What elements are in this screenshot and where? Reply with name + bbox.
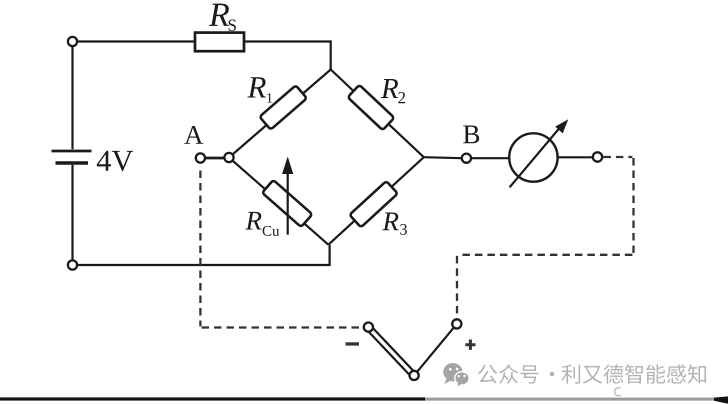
label RS bbox=[209, 4, 229, 26]
battery - terminal circle bbox=[68, 260, 77, 269]
resistor R3 bbox=[349, 181, 397, 227]
arrow wiper of RCu bbox=[287, 171, 289, 235]
label R1 bbox=[247, 77, 266, 97]
wire from Rs to top corner and down to bridge top vertex bbox=[244, 42, 331, 71]
battery 4V plates bbox=[52, 150, 92, 153]
bridge left vertex circle bbox=[224, 153, 233, 162]
wire bridge arm bottom-left bbox=[229, 158, 328, 245]
node B terminal circle bbox=[462, 154, 471, 163]
label R3 bbox=[382, 213, 398, 231]
wire top from battery + terminal to Rs bbox=[77, 40, 195, 42]
label minus polarity bbox=[346, 342, 360, 345]
label R2 bbox=[381, 79, 398, 98]
resistor RCu bbox=[262, 180, 312, 227]
right terminal circle bbox=[593, 152, 602, 161]
switch left contact circle bbox=[364, 323, 373, 332]
resistor RS bbox=[195, 33, 244, 52]
resistor R1 bbox=[259, 85, 306, 129]
battery + terminal circle bbox=[68, 37, 77, 46]
dashed wire from right terminal to switch right contact bbox=[457, 157, 634, 319]
meter M1 (galvanometer) bbox=[509, 133, 557, 181]
switch pivot contact circle bbox=[410, 371, 419, 380]
label B bbox=[463, 126, 479, 144]
wire bottom from battery - terminal to bridge bottom vertex bbox=[77, 245, 329, 265]
switch right contact circle bbox=[452, 319, 461, 328]
wire bridge right vertex to node B bbox=[424, 157, 462, 158]
wire meter to right terminal bbox=[558, 156, 593, 158]
wire node A to bridge left vertex bbox=[204, 157, 225, 160]
wire bridge arm top-left bbox=[229, 70, 331, 158]
label plus polarity bbox=[465, 340, 475, 350]
switch S blade (thick open bar) bbox=[366, 325, 416, 377]
label A bbox=[184, 126, 203, 144]
wire battery bottom lead bbox=[71, 165, 73, 260]
wire bridge arm top-right bbox=[331, 70, 424, 158]
wire bridge arm bottom-right bbox=[328, 157, 423, 245]
wire battery top lead bbox=[71, 46, 73, 149]
label 4V bbox=[97, 151, 111, 171]
node A terminal circle bbox=[196, 153, 205, 162]
switch S moving contact wire bbox=[414, 324, 457, 376]
resistor R2 bbox=[348, 85, 395, 130]
dashed wire from node A down and right to switch bbox=[200, 171, 363, 328]
wire node B to meter bbox=[471, 157, 509, 159]
label RCu bbox=[245, 212, 261, 230]
